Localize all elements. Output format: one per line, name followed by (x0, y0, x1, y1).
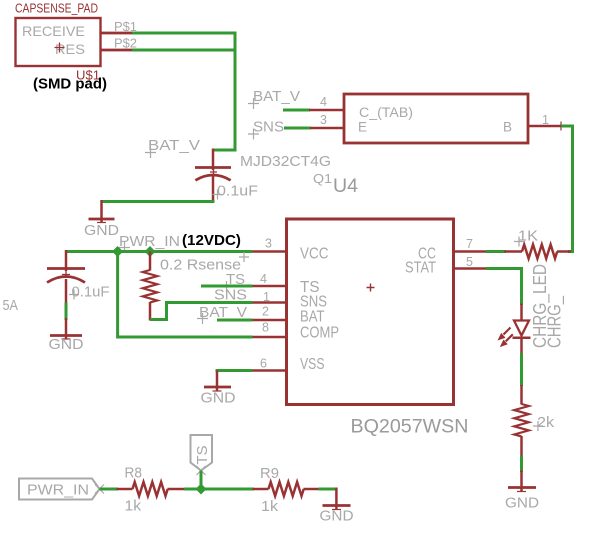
wire TS flag down (200, 471, 203, 491)
plate curved (47, 277, 85, 283)
lead top (212, 149, 215, 171)
zigzag (133, 482, 168, 496)
lead right (168, 488, 186, 491)
junction (TS tap) (196, 484, 207, 495)
lead bottom (149, 302, 152, 321)
lead left (505, 250, 523, 253)
pin 4 stub (TS) (253, 285, 287, 288)
svg-text:BAT_V: BAT_V (148, 137, 200, 154)
svg-text:0.1uF: 0.1uF (72, 285, 110, 301)
origin cross (210, 169, 217, 176)
lead top (65, 250, 68, 271)
svg-text:6: 6 (260, 357, 267, 371)
svg-text:5: 5 (466, 255, 473, 269)
svg-text:7: 7 (466, 237, 473, 251)
origin cross SNS (248, 129, 259, 140)
IC origin cross (367, 284, 375, 292)
svg-text:CHRG_: CHRG_ (545, 295, 566, 348)
lead top (149, 252, 152, 271)
flag TS (191, 435, 213, 475)
origin cross BAT_V top (145, 147, 156, 158)
svg-text:GND: GND (49, 336, 84, 353)
emission arrow 2 (506, 334, 513, 341)
pin 6 stub (VSS) (253, 369, 287, 372)
wire P$1 to vertical (132, 32, 235, 35)
svg-text:1k: 1k (261, 498, 279, 515)
svg-text:P$2: P$2 (114, 36, 137, 51)
value origin cross (213, 190, 223, 200)
svg-text:GND: GND (505, 495, 539, 512)
plate straight (47, 267, 85, 270)
pin 3 stub (310, 127, 344, 130)
wire LED to 2k (520, 353, 523, 386)
wire CC pin to 1K (486, 250, 506, 253)
svg-text:CAPSENSE_PAD: CAPSENSE_PAD (15, 2, 98, 16)
capsense pad U$1 (15, 2, 137, 93)
svg-text:4: 4 (320, 95, 327, 109)
resistor R8 1k (horizontal) (117, 465, 186, 515)
origin cross Rsense (239, 252, 249, 262)
ground symbol (below C1) (49, 318, 84, 353)
svg-text:1: 1 (542, 113, 549, 127)
resistor R? 1K (horizontal) (505, 228, 572, 259)
box U$1 (16, 18, 101, 66)
wire R8 to R9 (184, 488, 254, 491)
origin cross 1K (514, 237, 524, 247)
plate curved (195, 175, 230, 180)
flag PWR_IN (19, 479, 104, 500)
svg-text:R9: R9 (260, 465, 279, 482)
wire COMP net (118, 252, 253, 338)
svg-text:PWR_IN: PWR_IN (27, 482, 89, 499)
body box (344, 94, 528, 143)
ground symbol (top left) (84, 200, 119, 239)
wire TS to pin4 (201, 285, 253, 288)
wire vertical down to cap C2 (213, 32, 235, 151)
pin 7 stub (CC) (454, 250, 487, 253)
resistor 2k (vertical) (514, 385, 554, 457)
svg-text:(SMD pad): (SMD pad) (33, 76, 107, 93)
svg-text:SNS: SNS (214, 287, 247, 304)
zigzag (514, 404, 529, 436)
svg-text:STAT: STAT (405, 260, 436, 277)
svg-text:E: E (358, 120, 367, 135)
wire Q1 base to right vertical (561, 125, 574, 128)
pin 2 stub (BAT) (253, 319, 287, 322)
pin 8 stub (COMP) (253, 336, 287, 339)
ground symbol (VSS) (201, 371, 236, 407)
IC U? BQ2057WSN (253, 219, 488, 438)
svg-text:COMP: COMP (300, 325, 339, 342)
lead bottom (212, 176, 215, 203)
svg-text:VSS: VSS (300, 356, 325, 373)
svg-text:MJD32CT4G: MJD32CT4G (240, 153, 331, 170)
wire Rsense bottom to SNS pin (150, 303, 253, 320)
capacitor C1 0.1uF (left, polarized) (47, 250, 110, 304)
lead right (304, 488, 321, 491)
wire PWR_IN flag to R8 (100, 488, 119, 491)
pin 5 stub (STAT) (454, 267, 487, 270)
wire BAT_V to pin4 (283, 109, 310, 112)
pin P$2 stub (100, 49, 133, 52)
svg-text:RECEIVE: RECEIVE (22, 23, 85, 39)
transistor Q1 MJD32CT4G (240, 94, 566, 197)
wire R9 to GND (319, 488, 338, 491)
ground symbol (LED chain) (505, 471, 539, 512)
plate straight (195, 166, 231, 169)
triangle (514, 321, 529, 336)
pin 4 stub (309, 109, 344, 112)
wire VSS to GND (216, 369, 253, 372)
svg-text:GND: GND (84, 222, 119, 239)
wire PWR_IN main horizontal (66, 250, 253, 253)
lead top (520, 304, 523, 321)
origin cross U$1 (55, 43, 65, 53)
svg-text:U4: U4 (333, 176, 358, 197)
lead bottom (520, 338, 523, 355)
lead bottom (65, 279, 68, 304)
wire SNS to pin3 (284, 127, 311, 130)
resistor R9 1k (horizontal) (253, 465, 321, 515)
svg-text:3: 3 (320, 113, 327, 127)
svg-text:GND: GND (320, 508, 354, 525)
svg-text:GND: GND (201, 390, 236, 407)
wire cap C1 lower (65, 303, 68, 321)
svg-text:SNS: SNS (253, 119, 284, 136)
svg-text:3: 3 (265, 237, 272, 251)
svg-text:1k: 1k (125, 498, 142, 515)
ground symbol (R9) (320, 488, 354, 525)
svg-text:8: 8 (262, 321, 269, 335)
origin cross BAT_V lower (197, 313, 208, 324)
svg-text:R8: R8 (125, 465, 143, 482)
pin 3 stub (VCC) (253, 250, 287, 253)
junction (COMP tap) (112, 246, 123, 257)
origin cross TS (221, 281, 232, 292)
pin P$1 stub (100, 32, 133, 35)
lead left (253, 488, 269, 491)
origin cross PWR_IN (119, 242, 130, 253)
svg-text:0.1uF: 0.1uF (217, 184, 258, 200)
svg-text:BQ2057WSN: BQ2057WSN (351, 416, 469, 438)
junction (Rsense tap) (145, 246, 156, 257)
wire cap C2 to GND (102, 200, 215, 203)
lead top (520, 385, 523, 405)
value origin cross (69, 290, 79, 300)
svg-text:1: 1 (263, 290, 270, 304)
flag origin cross (197, 466, 206, 475)
svg-text:VCC: VCC (300, 246, 329, 263)
wire P$2 to vertical (132, 49, 235, 52)
lead bottom (520, 436, 523, 457)
origin cross BAT_V (248, 98, 259, 109)
svg-text:BAT_V: BAT_V (253, 88, 300, 105)
zigzag (143, 270, 158, 302)
svg-text:4: 4 (260, 272, 267, 286)
lead right (557, 250, 571, 253)
lead left (117, 488, 133, 491)
origin cross 2k (533, 421, 543, 431)
capacitor C2 0.1uF (polarized) (195, 149, 258, 203)
zigzag (522, 245, 557, 259)
flag origin cross (95, 485, 104, 494)
svg-text:2k: 2k (537, 414, 555, 431)
zigzag (269, 482, 304, 496)
svg-text:TS: TS (194, 446, 211, 465)
svg-text:(12VDC): (12VDC) (182, 232, 241, 249)
origin cross (62, 271, 70, 278)
resistor Rsense 0.2 (vertical) (143, 252, 249, 321)
wire 2k to GND (520, 456, 523, 473)
svg-text:2: 2 (262, 305, 269, 319)
emission arrow 1 (504, 328, 511, 335)
wire right vertical (base net) (568, 126, 573, 252)
pin 1 stub (528, 125, 561, 128)
svg-text:B: B (503, 120, 512, 135)
LED CHRG_LED (498, 264, 566, 355)
wire BAT_V to BAT pin (217, 319, 253, 322)
svg-text:C_(TAB): C_(TAB) (359, 105, 413, 120)
pin 1 end cross (557, 122, 566, 131)
pin 1 stub (SNS) (253, 301, 287, 304)
svg-text:Q1: Q1 (313, 171, 332, 186)
svg-text:5A: 5A (3, 297, 19, 314)
cathode bar (513, 336, 531, 339)
body box (287, 219, 454, 405)
svg-text:BAT: BAT (300, 309, 325, 326)
wire STAT pin to LED (486, 269, 522, 306)
